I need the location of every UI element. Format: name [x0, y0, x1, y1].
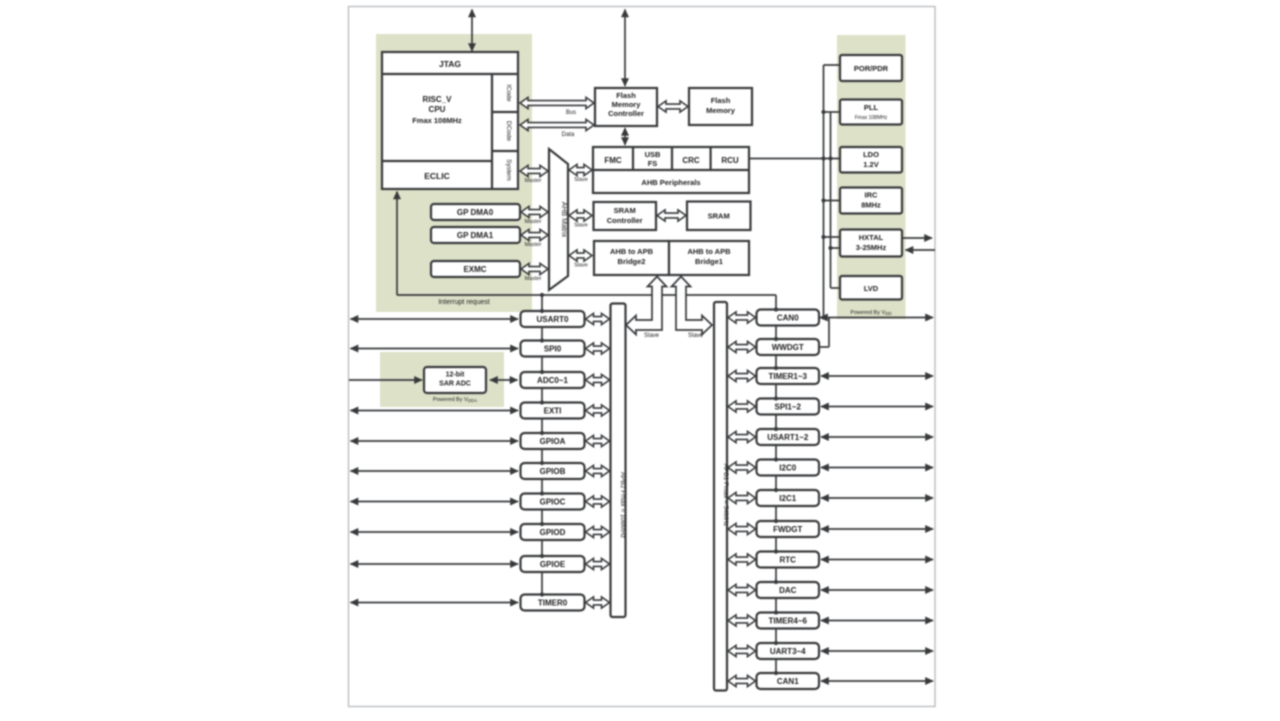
wire I2C0 external pins [821, 467, 933, 469]
block FWDGT [757, 521, 820, 537]
block USART1~2 [757, 429, 820, 445]
svg-text:TIMER4~6: TIMER4~6 [769, 617, 808, 626]
bus arrow CAN0 to APB1 bus [728, 312, 756, 323]
svg-text:GP DMA1: GP DMA1 [457, 231, 494, 240]
svg-text:USB: USB [645, 150, 661, 159]
svg-text:CPU: CPU [429, 105, 446, 114]
svg-text:SRAM: SRAM [708, 212, 730, 221]
bus arrow CAN1 to APB1 bus [728, 675, 756, 686]
block GPIOB [521, 463, 585, 479]
wire GPIOB external pins [351, 470, 519, 472]
svg-text:Data: Data [562, 132, 575, 138]
svg-text:Slave: Slave [688, 333, 704, 339]
wire Flash Memory Controller to top edge [624, 10, 626, 87]
wire CAN0 external pins [820, 317, 933, 319]
svg-text:SRAM: SRAM [614, 206, 636, 215]
wire TIMER0 external pins [351, 602, 519, 604]
svg-text:Fmax 108MHz: Fmax 108MHz [855, 115, 888, 121]
wire EXTI external pins [351, 410, 519, 412]
wire TIMER4~6 external pins [821, 620, 933, 622]
svg-text:GPIOB: GPIOB [540, 467, 566, 476]
wire UART3~4 external pins [821, 650, 933, 652]
wire GPIOA external pins [351, 440, 519, 442]
svg-text:Slave: Slave [574, 223, 588, 229]
bus arrow AHB Matrix to AHB Peripherals (Slave) [569, 164, 592, 175]
ICode port cell [492, 111, 518, 113]
block 12-bit SAR ADC [424, 367, 486, 393]
block Flash Memory [689, 88, 752, 125]
block AHB to APB Bridge2 [594, 241, 669, 275]
svg-text:GP DMA0: GP DMA0 [457, 208, 494, 217]
svg-text:Master: Master [525, 276, 542, 282]
svg-text:CAN1: CAN1 [777, 677, 799, 686]
bus arrow EXTI to APB2 bus [586, 405, 610, 416]
svg-text:LDO: LDO [863, 150, 879, 159]
svg-text:Master: Master [525, 242, 542, 248]
svg-text:EXMC: EXMC [463, 265, 486, 274]
wire SPI1~2 external pins [821, 406, 933, 408]
wire RTC external pins [821, 559, 933, 561]
bus arrow GPIOB to APB2 bus [586, 465, 610, 476]
wire SPI0 external pins [351, 348, 519, 350]
bus arrow ADC0~1 to APB2 bus [586, 374, 610, 385]
wire interrupt request from peripherals to ECLIC [397, 294, 776, 296]
bus arrow GPIOE to APB2 bus [586, 558, 610, 569]
bus arrow GPIOD to APB2 bus [586, 526, 610, 537]
bus arrow USART0 to APB2 bus [586, 313, 610, 324]
svg-text:SAR ADC: SAR ADC [439, 381, 471, 388]
block TIMER4~6 [757, 613, 820, 629]
APB2 bus [611, 304, 626, 618]
CRC cell [709, 147, 711, 170]
svg-text:Powered By VDDA: Powered By VDDA [433, 397, 477, 403]
wire RCU to LDO [749, 158, 840, 160]
svg-text:GPIOE: GPIOE [540, 560, 566, 569]
USBFS cell [671, 147, 673, 170]
block ADC0~1 [521, 372, 585, 388]
DCode port cell [492, 150, 518, 152]
svg-text:PLL: PLL [864, 103, 879, 112]
block SRAM Controller [594, 202, 657, 230]
wire TIMER1~3 external pins [821, 375, 933, 377]
bus arrow UART3~4 to APB1 bus [728, 645, 756, 656]
svg-text:FWDGT: FWDGT [773, 525, 802, 534]
bus arrow TIMER4~6 to APB1 bus [728, 615, 756, 626]
svg-text:RCU: RCU [721, 156, 739, 165]
svg-text:ADC0~1: ADC0~1 [537, 376, 568, 385]
svg-text:AHB Matrix: AHB Matrix [560, 202, 567, 238]
svg-text:DAC: DAC [779, 586, 797, 595]
bus arrow USART1~2 to APB1 bus [728, 431, 756, 442]
block CAN0 [757, 310, 820, 326]
block LVD [840, 276, 902, 300]
block TIMER0 [521, 595, 585, 611]
svg-text:Memory: Memory [612, 100, 642, 109]
svg-text:POR/PDR: POR/PDR [854, 64, 889, 73]
bus arrow CPU System port to AHB Matrix (Master) [520, 165, 548, 176]
bus arrow Flash Memory Controller to FMC register block [624, 128, 626, 145]
wire WWDGT to CAN0 node [819, 346, 829, 348]
svg-text:SPI0: SPI0 [544, 345, 562, 354]
svg-text:TIMER1~3: TIMER1~3 [769, 372, 808, 381]
svg-text:FS: FS [648, 159, 658, 168]
wire USART0 external pins [351, 318, 519, 320]
block I2C0 [757, 460, 820, 476]
block GPIOC [521, 494, 585, 510]
svg-text:GPIOA: GPIOA [540, 437, 566, 446]
wire right peripheral interrupt chain [775, 308, 777, 674]
wire HXTAL OSC out pin [903, 237, 932, 239]
wire power/clock trunk 1 [823, 65, 825, 318]
svg-text:Controller: Controller [607, 216, 643, 225]
svg-text:FMC: FMC [604, 156, 622, 165]
bus arrow WWDGT to APB1 bus [728, 341, 756, 352]
bus arrow Bridge1 to APB1 bus (Slave) [672, 277, 713, 335]
svg-text:8MHz: 8MHz [861, 201, 881, 210]
svg-text:Master: Master [525, 219, 542, 225]
svg-text:SPI1~2: SPI1~2 [775, 403, 802, 412]
svg-text:WWDGT: WWDGT [772, 343, 804, 352]
block GP DMA1 [431, 227, 520, 243]
block I2C1 [757, 490, 820, 506]
svg-text:Bus: Bus [566, 110, 576, 116]
bus arrow GPIOA to APB2 bus [586, 435, 610, 446]
bus arrow DAC to APB1 bus [728, 584, 756, 595]
svg-text:CRC: CRC [682, 156, 700, 165]
svg-text:Fmax 108MHz: Fmax 108MHz [412, 116, 462, 125]
bus arrow RTC to APB1 bus [728, 554, 756, 565]
block POR/PDR [840, 55, 902, 81]
wire HXTAL OSC in pin [906, 249, 936, 251]
wire GPIOE external pins [351, 563, 519, 565]
svg-text:I2C0: I2C0 [779, 464, 796, 473]
svg-text:LVD: LVD [864, 284, 879, 293]
CPU core cell RISC_V CPU Fmax 108MHz [491, 74, 493, 189]
svg-text:AHB Peripherals: AHB Peripherals [641, 178, 700, 187]
svg-text:GPIOD: GPIOD [540, 528, 566, 537]
wire left peripheral interrupt chain [541, 295, 543, 596]
block GPIOE [521, 556, 585, 572]
block CAN1 [757, 673, 820, 689]
block LDO 1.2V [840, 147, 902, 173]
bus arrow TIMER0 to APB2 bus [586, 597, 610, 608]
svg-text:APB2 Fmax = 108MHz: APB2 Fmax = 108MHz [619, 472, 626, 538]
block SPI0 [521, 341, 585, 357]
svg-text:TIMER0: TIMER0 [538, 599, 568, 608]
svg-text:1.2V: 1.2V [863, 160, 878, 169]
svg-text:JTAG: JTAG [439, 59, 461, 69]
wire FWDGT external pins [821, 528, 933, 530]
svg-text:ECLIC: ECLIC [424, 171, 450, 181]
svg-text:EXTI: EXTI [544, 407, 562, 416]
svg-text:RTC: RTC [780, 556, 797, 565]
power domain VDD (CPU region) [376, 34, 532, 312]
svg-text:Master: Master [525, 178, 542, 184]
bus arrow SPI1~2 to APB1 bus [728, 401, 756, 412]
bus arrow TIMER1~3 to APB1 bus [728, 370, 756, 381]
wire power/clock trunk 2 [830, 112, 832, 288]
wire SAR ADC to ADC0~1 [490, 379, 518, 381]
power domain VDDA (ADC region) [380, 352, 504, 407]
bus arrow I2C0 to APB1 bus [728, 462, 756, 473]
wire GPIOC external pins [351, 501, 519, 503]
block JTAG / RISC-V CPU / ECLIC outline [382, 52, 518, 189]
svg-text:Bridge2: Bridge2 [618, 257, 646, 266]
svg-text:Flash: Flash [711, 96, 731, 105]
bus arrow ICode to Flash Memory Controller (Bus) [520, 97, 594, 108]
JTAG cell [382, 73, 518, 75]
bus arrow GP DMA0 to AHB Matrix (Master) [521, 206, 548, 217]
svg-text:USART0: USART0 [536, 315, 569, 324]
svg-text:Bridge1: Bridge1 [695, 257, 723, 266]
block EXMC [431, 261, 520, 277]
wire USART1~2 external pins [821, 436, 933, 438]
svg-text:Flash: Flash [616, 91, 636, 100]
block HXTAL 3-25MHz [840, 230, 902, 257]
svg-text:Controller: Controller [608, 109, 644, 118]
block PLL [840, 100, 902, 125]
APB1 bus [714, 302, 727, 691]
block TIMER1~3 [757, 368, 820, 384]
bus arrow EXMC to AHB Matrix (Master) [521, 263, 548, 274]
svg-text:APB1 Fmax = 54MHz: APB1 Fmax = 54MHz [722, 464, 729, 527]
svg-text:UART3~4: UART3~4 [770, 647, 806, 656]
wire trunk to HXTAL pin2 [831, 247, 841, 249]
svg-text:DCode: DCode [505, 121, 512, 142]
svg-text:AHB to APB: AHB to APB [610, 247, 654, 256]
block IRC 8MHz [840, 188, 902, 214]
svg-text:I2C1: I2C1 [779, 494, 796, 503]
wire GPIOD external pins [351, 531, 519, 533]
block SRAM [687, 202, 751, 231]
bus arrow GPIOC to APB2 bus [586, 496, 610, 507]
bus arrow Bridge2 to APB2 bus (Slave) [626, 277, 667, 335]
block SPI1~2 [757, 399, 820, 415]
block EXTI [521, 403, 585, 419]
svg-text:Interrupt request: Interrupt request [438, 299, 489, 306]
block AHB to APB Bridge1 [669, 241, 749, 275]
block USART0 [521, 311, 585, 327]
wire trunk to PLL [824, 111, 831, 113]
wire JTAG to top edge [471, 10, 473, 52]
svg-text:Slave: Slave [574, 177, 588, 183]
svg-text:IRC: IRC [865, 191, 879, 200]
svg-text:3-25MHz: 3-25MHz [856, 243, 887, 252]
wire CAN1 external pins [821, 680, 933, 682]
svg-text:USART1~2: USART1~2 [767, 433, 809, 442]
svg-text:CAN0: CAN0 [777, 314, 799, 323]
svg-text:GPIOC: GPIOC [540, 498, 566, 507]
wire I2C1 external pins [821, 497, 933, 499]
svg-text:Slave: Slave [574, 263, 588, 269]
svg-text:Slave: Slave [644, 333, 660, 339]
block AHB Peripherals (FMC/USB FS/CRC/RCU) [593, 147, 749, 193]
svg-text:Memory: Memory [706, 106, 736, 115]
bus arrow I2C1 to APB1 bus [728, 492, 756, 503]
block DAC [757, 582, 820, 598]
wire ADC external input pins [349, 379, 422, 381]
bus arrow SRAM Controller to SRAM [657, 210, 686, 221]
block UART3~4 [757, 643, 820, 659]
block GP DMA0 [431, 204, 520, 220]
svg-text:AHB to APB: AHB to APB [687, 247, 731, 256]
block Flash Memory Controller [595, 88, 657, 126]
wire trunk to HXTAL pin1 [824, 236, 841, 238]
svg-text:12-bit: 12-bit [446, 372, 465, 379]
power domain VDD (right power/clock region) [837, 35, 906, 319]
bus arrow Flash Memory Controller to Flash Memory [658, 101, 688, 112]
svg-text:System: System [505, 159, 512, 181]
FMC cell [632, 147, 634, 170]
block RTC [757, 552, 820, 568]
block GPIOD [521, 524, 585, 540]
AHB Matrix crossbar [549, 149, 568, 290]
bus arrow AHB Matrix to AHB-APB bridges (Slave) [569, 250, 592, 261]
svg-text:ICode: ICode [505, 84, 512, 102]
wire trunk to IRC [824, 200, 841, 202]
bus arrow FWDGT to APB1 bus [728, 523, 756, 534]
block GPIOA [521, 433, 585, 449]
svg-text:RISC_V: RISC_V [423, 95, 453, 104]
bus arrow AHB Matrix to SRAM Controller (Slave) [569, 210, 592, 221]
block WWDGT [757, 339, 820, 355]
bus arrow DCode to Flash Memory Controller (Data) [520, 119, 594, 130]
wire DAC external pins [821, 589, 933, 591]
ECLIC cell [382, 160, 492, 162]
bus arrow SPI0 to APB2 bus [586, 343, 610, 354]
svg-text:Powered By VDD: Powered By VDD [850, 310, 892, 316]
svg-text:HXTAL: HXTAL [859, 233, 884, 242]
bus arrow GP DMA1 to AHB Matrix (Master) [521, 229, 548, 240]
diagram frame [349, 7, 936, 707]
